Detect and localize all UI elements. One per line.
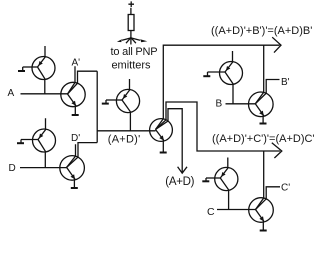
svg-text:A': A' <box>72 57 81 68</box>
transistor Q9 (C row load) <box>202 158 238 210</box>
svg-text:(A+D): (A+D) <box>165 176 194 188</box>
svg-text:D: D <box>9 163 16 174</box>
svg-text:B': B' <box>281 77 290 88</box>
svg-text:((A+D)'+C')'=(A+D)C': ((A+D)'+C')'=(A+D)C' <box>212 133 315 145</box>
wire Q6 collector to (A+D) arrow <box>156 109 183 173</box>
supply lead lower <box>130 31 132 45</box>
wire input B <box>226 103 256 105</box>
svg-text:C': C' <box>281 182 290 193</box>
arrowhead B row output <box>272 37 281 52</box>
svg-text:to all PNP: to all PNP <box>111 46 158 58</box>
wire Q4 collector to D' node <box>67 144 76 167</box>
transistor Q3 (D input load) <box>17 118 56 167</box>
arrowhead C row output <box>272 143 282 158</box>
transistor Q6 ((A+D) inverter) <box>150 119 173 153</box>
wire Q10 collector to C' stub <box>256 187 281 210</box>
svg-text:A: A <box>8 88 15 99</box>
wire Q6 collector to C row output with arrow <box>156 102 281 151</box>
svg-text:(A+D)': (A+D)' <box>108 133 141 145</box>
transistor Q7 (B row load) <box>203 51 242 104</box>
text: to all PNP emitters <box>111 46 158 72</box>
distribution fan to PNP emitters <box>117 38 147 44</box>
svg-text:((A+D)'+B')'=(A+D)B': ((A+D)'+B')'=(A+D)B' <box>211 25 312 37</box>
transistor Q1 (A input load) <box>18 46 55 94</box>
wire Q8 collector to B' stub <box>255 80 279 104</box>
wire (A+D)' to inverter base <box>97 130 155 132</box>
svg-text:B: B <box>216 99 223 110</box>
transistor Q5 ((A+D) load) <box>102 79 140 131</box>
transistor Q2 (A') <box>61 82 85 115</box>
transistor Q4 (D') <box>60 156 85 188</box>
transistor Q10 (C') <box>249 198 274 231</box>
wire Q10 collector to output line <box>256 151 264 210</box>
transistor Q8 (B') <box>248 92 273 124</box>
svg-text:C: C <box>207 206 215 218</box>
wire Q2 collector to A' node <box>68 66 76 94</box>
wire Q6 collector to B row output with arrow <box>156 45 280 129</box>
supply lead <box>130 8 132 15</box>
wire Q8 collector to output line <box>255 45 263 104</box>
wire node A'/D' bus <box>96 71 98 142</box>
wire input D <box>20 167 67 169</box>
arrowhead (A+D) down arrow <box>178 167 187 173</box>
wire input A <box>21 93 68 95</box>
wire Q2 collector branch to bus <box>68 71 98 94</box>
power supply + symbol <box>128 1 134 7</box>
supply resistor box <box>128 15 134 31</box>
svg-text:emitters: emitters <box>111 60 151 72</box>
wire input C <box>217 209 256 211</box>
wire Q4 collector branch to bus <box>67 143 98 168</box>
